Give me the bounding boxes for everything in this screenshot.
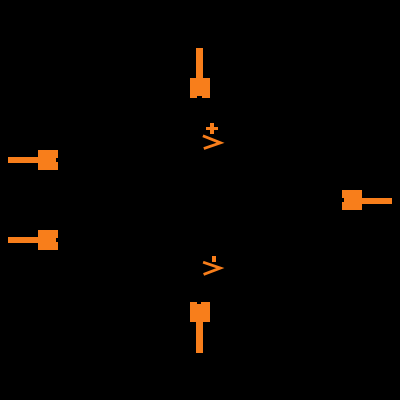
wire: IN+ pin lead (upper-left horizontal) (8, 157, 39, 163)
pin pad: V- supply pin terminal square (190, 302, 210, 322)
wire: OUT pin lead (right horizontal) (362, 198, 392, 204)
wire: V- supply pin lead (bottom vertical stem) (196, 322, 203, 353)
pin pad: V+ supply pin terminal square (190, 78, 210, 98)
wire: V+ supply pin lead (top vertical stem) (196, 48, 203, 79)
label: + polarity mark (non-inverting input) (206, 127, 218, 130)
pin pad: OUT pin terminal square (342, 190, 362, 210)
wire: IN- pin lead (lower-left horizontal) (8, 237, 39, 243)
label: - polarity mark (inverting input) (212, 256, 216, 262)
pin pad: IN- pin terminal square (38, 230, 58, 250)
pin pad: IN+ pin terminal square (38, 150, 58, 170)
